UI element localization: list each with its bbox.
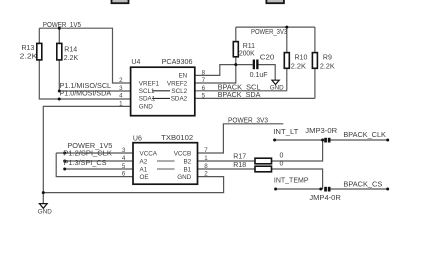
- svg-text:A2: A2: [140, 158, 148, 165]
- wire U6 pin7 VCCB to POWER_3V3: [198, 124, 284, 153]
- wire U6 pin1 B2 to R17: [198, 160, 256, 162]
- svg-text:0: 0: [280, 161, 284, 168]
- U6 internal bar A1-B1: [157, 168, 175, 170]
- svg-text:A1: A1: [140, 166, 148, 173]
- svg-text:7: 7: [204, 147, 208, 154]
- svg-text:P1.1/MISO/SCL: P1.1/MISO/SCL: [60, 83, 112, 90]
- ground symbol bottom-left: [38, 204, 52, 216]
- svg-text:BPACK_CLK: BPACK_CLK: [343, 132, 386, 139]
- wire R9 top lead: [314, 27, 316, 52]
- svg-text:2.2K: 2.2K: [320, 63, 335, 70]
- svg-text:SCL2: SCL2: [171, 88, 187, 95]
- wire BPACK_CS net: [331, 188, 388, 190]
- IC U4 PCA9306 box: [131, 67, 195, 116]
- svg-text:U6: U6: [133, 135, 142, 142]
- svg-text:1: 1: [119, 100, 123, 107]
- node wire-end BPACK_CS: [386, 188, 389, 191]
- svg-text:6: 6: [202, 85, 206, 92]
- wire VCCA to OE loop: [56, 153, 133, 177]
- resistor R9 body: [312, 53, 317, 69]
- svg-text:3: 3: [119, 85, 123, 92]
- node junction POWER_3V3 / R10: [285, 26, 288, 29]
- svg-text:7: 7: [202, 77, 206, 84]
- wire U6 pin2 GND to ground rail: [43, 177, 223, 193]
- svg-text:VREF2: VREF2: [167, 80, 188, 87]
- node wire-end INT_LT: [273, 139, 276, 142]
- svg-text:R14: R14: [64, 46, 77, 53]
- svg-text:OE: OE: [140, 174, 149, 181]
- svg-text:2.2K: 2.2K: [291, 63, 306, 70]
- U4 internal link SCL1-SCL2: [152, 90, 170, 92]
- capacitor C20 plates: [253, 60, 259, 70]
- resistor R17 body: [255, 158, 272, 164]
- svg-text:8: 8: [204, 163, 208, 170]
- node junction R14 / SCL: [58, 90, 61, 93]
- wire BPACK_SDA net: [195, 97, 315, 99]
- wire R13 bottom lead to SDA: [39, 60, 59, 99]
- svg-text:3: 3: [122, 147, 126, 154]
- U4 internal link SDA1-SDA2: [152, 97, 170, 99]
- svg-text:4: 4: [119, 93, 123, 100]
- wire C20 right plate to GND: [259, 65, 276, 81]
- svg-text:R13: R13: [22, 45, 35, 52]
- svg-text:1: 1: [204, 155, 208, 162]
- svg-text:INT_LT: INT_LT: [273, 129, 299, 136]
- svg-text:VCCB: VCCB: [174, 150, 192, 157]
- wire R10 bottom lead: [286, 68, 288, 91]
- wire POWER_3V3 rail top: [236, 26, 315, 28]
- jumper JMP3-0R: [324, 138, 330, 143]
- wire R10 top lead: [286, 27, 288, 52]
- svg-text:GND: GND: [139, 103, 153, 110]
- resistor R11 body: [233, 42, 238, 57]
- wire R14 top lead: [58, 28, 60, 43]
- wire R18 to JMP4 junction: [272, 169, 323, 189]
- wire U4 pin8 EN: [195, 65, 236, 76]
- svg-text:BPACK_SCL: BPACK_SCL: [218, 84, 261, 91]
- resistor R10 body: [284, 53, 289, 69]
- resistor R14 body: [57, 43, 62, 60]
- svg-text:VCCA: VCCA: [140, 150, 158, 157]
- wire U4 pin7 VREF2: [195, 65, 236, 83]
- wire R14 bottom lead: [58, 60, 60, 91]
- wire BPACK_SCL net: [195, 90, 287, 92]
- svg-text:BPACK_CS: BPACK_CS: [343, 181, 382, 188]
- svg-text:R10: R10: [295, 55, 308, 62]
- wire POWER_1V5 rail to U6 VCCA: [56, 152, 133, 154]
- U6 internal bar A2-B2: [157, 160, 175, 162]
- node junction VCCA rail: [63, 152, 66, 155]
- wire node to C20 left plate: [236, 64, 253, 66]
- wire ground stub bottom-left: [42, 193, 44, 204]
- svg-text:2: 2: [204, 171, 208, 178]
- svg-text:2.2K: 2.2K: [20, 53, 38, 60]
- svg-text:GND: GND: [38, 208, 52, 215]
- svg-text:4: 4: [122, 155, 126, 162]
- svg-text:SDA2: SDA2: [171, 96, 188, 103]
- svg-text:SDA1: SDA1: [139, 96, 156, 103]
- svg-text:P1.0/MOSI/SDA: P1.0/MOSI/SDA: [60, 91, 112, 98]
- wire INT_LT net: [275, 139, 323, 141]
- svg-text:0.1uF: 0.1uF: [250, 72, 268, 79]
- svg-text:2.2K: 2.2K: [64, 55, 79, 62]
- wire R13 top lead: [38, 28, 40, 43]
- svg-text:PCA9306: PCA9306: [162, 59, 193, 66]
- node junction ground rail / GND symbol: [42, 191, 45, 194]
- node wire-end BPACK_CLK: [386, 139, 389, 142]
- wire BPACK_CLK net: [331, 139, 388, 141]
- svg-text:EN: EN: [178, 73, 187, 80]
- wire A2 net P1.2/SPI_CLK: [65, 160, 133, 162]
- svg-text:P1.3/SPI_CS: P1.3/SPI_CS: [64, 160, 107, 167]
- resistor R13 body: [37, 43, 42, 60]
- svg-text:B2: B2: [183, 158, 191, 165]
- svg-text:POWER_1V5: POWER_1V5: [67, 143, 112, 150]
- wire A1 net P1.3/SPI_CS: [65, 168, 133, 170]
- svg-text:BPACK_SDA: BPACK_SDA: [218, 92, 261, 99]
- wire R11 top lead: [235, 27, 237, 41]
- wire R17 to JMP3 junction: [272, 140, 323, 161]
- svg-text:U4: U4: [131, 59, 140, 66]
- svg-text:200K: 200K: [239, 50, 255, 57]
- svg-text:0: 0: [280, 153, 284, 160]
- svg-text:R9: R9: [323, 55, 332, 62]
- wire SCL net P1.1/MISO/SCL: [59, 90, 130, 92]
- svg-text:5: 5: [122, 163, 126, 170]
- wire POWER_1V5 rail top: [39, 28, 130, 83]
- svg-text:VREF1: VREF1: [139, 80, 160, 87]
- svg-text:TXB0102: TXB0102: [161, 135, 193, 142]
- node junction R13 / SDA: [58, 98, 61, 101]
- svg-text:C20: C20: [260, 54, 275, 61]
- svg-text:POWER_3V3: POWER_3V3: [228, 117, 268, 124]
- node wire-end INT_TEMP: [274, 188, 277, 191]
- node junction R18 / JMP4: [319, 188, 322, 191]
- svg-text:B1: B1: [183, 166, 191, 173]
- wire INT_TEMP net: [276, 188, 323, 190]
- svg-text:2: 2: [119, 77, 123, 84]
- svg-text:INT_TEMP: INT_TEMP: [274, 177, 309, 184]
- svg-text:POWER_1V5: POWER_1V5: [43, 22, 81, 29]
- wire SDA net P1.0/MOSI/SDA: [59, 98, 130, 100]
- cut-off connector top 2: [266, 0, 284, 3]
- svg-text:SCL1: SCL1: [139, 88, 155, 95]
- svg-text:P1.2/SPI_CLK: P1.2/SPI_CLK: [63, 150, 112, 157]
- svg-text:R18: R18: [233, 162, 246, 169]
- node wire-end A1: [63, 168, 66, 171]
- wire U6 pin8 B1 to R18: [198, 168, 256, 170]
- svg-text:JMP3-0R: JMP3-0R: [305, 128, 337, 135]
- svg-text:6: 6: [122, 171, 126, 178]
- svg-text:R11: R11: [243, 43, 255, 50]
- svg-text:5: 5: [202, 93, 206, 100]
- svg-text:GND: GND: [177, 174, 191, 181]
- svg-text:8: 8: [202, 70, 206, 77]
- node junction EN/VREF2/R11/C20: [234, 63, 237, 66]
- svg-text:POWER_3V3: POWER_3V3: [251, 29, 287, 36]
- wire R11 bottom lead: [235, 57, 237, 65]
- node junction R17 / JMP3: [321, 139, 324, 142]
- svg-text:GND: GND: [270, 85, 284, 92]
- node junction POWER_1V5 / R14: [58, 27, 61, 30]
- jumper JMP4-0R: [324, 187, 330, 192]
- svg-text:JMP4-0R: JMP4-0R: [309, 195, 340, 202]
- svg-text:R17: R17: [233, 154, 246, 161]
- wire R9 bottom lead: [314, 68, 316, 98]
- resistor R18 body: [255, 166, 272, 172]
- wire U4 pin1 GND to ground rail: [43, 106, 130, 192]
- IC U6 TXB0102 box: [133, 143, 198, 185]
- ground symbol near C20: [270, 80, 284, 91]
- cut-off connector top 1: [112, 0, 129, 3]
- node wire-end A2: [63, 160, 66, 163]
